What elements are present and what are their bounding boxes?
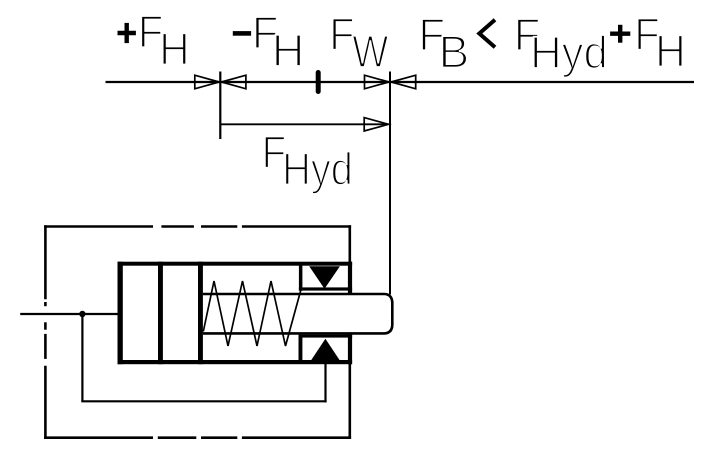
lower seal poppet triangle	[311, 339, 340, 361]
force axis line	[106, 81, 695, 83]
second plus sign	[610, 25, 630, 43]
feedback line down from junction	[81, 314, 83, 401]
piston rod outline with rounded end	[203, 294, 392, 333]
dimension boundary mark 2 vertical extension line	[389, 72, 391, 295]
feedback line horizontal run	[81, 400, 326, 402]
svg-text:H: H	[159, 23, 189, 74]
cylinder bottom wall	[118, 360, 353, 364]
pilot supply line	[20, 313, 117, 315]
dimension boundary mark 1 vertical	[219, 72, 221, 140]
upper seal block left edge	[299, 264, 303, 291]
dashed enclosure left edge	[44, 225, 47, 439]
cylinder left wall	[118, 262, 123, 365]
cylinder right wall lower segment	[348, 332, 352, 364]
open arrowhead pointing right at mark 1	[195, 75, 219, 89]
less-than sign	[479, 20, 495, 48]
dashed enclosure bottom edge	[44, 436, 351, 439]
spring	[203, 281, 301, 346]
piston plate 2	[198, 262, 203, 365]
zero reference tick	[316, 73, 321, 92]
svg-text:Hyd: Hyd	[282, 144, 353, 195]
dashed enclosure right edge upper segment	[348, 225, 351, 293]
lower seal block top edge	[299, 335, 353, 338]
svg-text:F: F	[329, 9, 354, 60]
label -FH minus sign	[233, 31, 251, 36]
label +FH plus sign	[118, 23, 136, 43]
dashed enclosure right edge lower segment	[348, 334, 351, 439]
junction node dot	[79, 311, 85, 317]
svg-text:H: H	[272, 25, 305, 76]
dashed enclosure top edge	[44, 225, 351, 228]
open arrowhead pointing right at mark 2	[365, 75, 389, 89]
upper seal block bottom edge	[299, 287, 352, 290]
svg-text:W: W	[352, 26, 388, 77]
piston plate 1	[158, 262, 163, 365]
open arrowhead pointing left at mark 1	[221, 75, 246, 89]
open arrowhead pointing left at mark 2	[391, 75, 416, 89]
svg-text:B: B	[439, 26, 470, 77]
svg-text:H: H	[655, 25, 686, 76]
feedback line up to seal block	[324, 362, 326, 402]
FHyd dimension open arrowhead pointing right	[364, 118, 388, 131]
lower seal block left edge	[299, 335, 303, 362]
cylinder right wall upper segment	[348, 262, 352, 295]
upper seal poppet triangle	[309, 266, 340, 288]
svg-text:Hyd: Hyd	[530, 27, 608, 78]
cylinder top wall	[118, 262, 353, 266]
FHyd dimension line	[220, 123, 387, 125]
